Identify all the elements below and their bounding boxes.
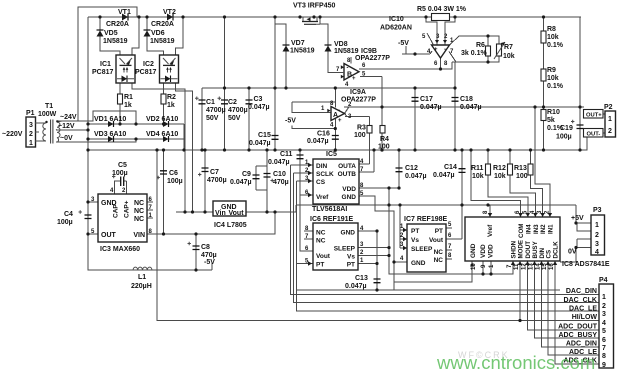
wire R2 chain — [163, 83, 165, 124]
svg-text:IC6 REF191E: IC6 REF191E — [310, 216, 354, 223]
wire C7 branch — [204, 150, 206, 212]
wire HI/LOW run — [157, 150, 599, 321]
wire C9 C10 pair — [256, 150, 267, 212]
svg-text:0.047µ: 0.047µ — [307, 138, 329, 145]
svg-text:VD5: VD5 — [104, 30, 118, 37]
svg-text:4: 4 — [602, 320, 606, 327]
svg-text:3: 3 — [602, 311, 606, 318]
wire IC10 pin3 — [426, 17, 437, 45]
svg-text:DAC_DIN: DAC_DIN — [566, 288, 597, 295]
capacitor C12 — [396, 168, 403, 172]
wire C14 branch — [461, 150, 463, 239]
svg-text:AD620AN: AD620AN — [380, 25, 412, 32]
svg-text:50V: 50V — [228, 115, 241, 122]
svg-text:C5: C5 — [118, 162, 127, 169]
svg-text:-: - — [338, 108, 340, 114]
svg-text:-5V: -5V — [398, 40, 409, 47]
svg-text:NC: NC — [134, 216, 144, 223]
svg-text:VT2: VT2 — [163, 9, 176, 16]
svg-text:OUT-: OUT- — [587, 131, 601, 137]
svg-text:VDD: VDD — [342, 186, 356, 193]
capacitor C7 — [198, 168, 209, 176]
capacitor C3 — [246, 100, 253, 104]
svg-text:ADC_DOUT: ADC_DOUT — [558, 324, 598, 331]
wire top-left 24V loop — [56, 7, 137, 124]
svg-text:C4: C4 — [64, 211, 73, 218]
svg-text:100W: 100W — [38, 111, 57, 118]
wire IC9A pin2 — [345, 108, 349, 114]
svg-text:VDD: VDD — [488, 244, 495, 258]
opamp IC9A — [331, 107, 345, 121]
svg-text:5: 5 — [602, 328, 606, 335]
svg-text:Vs: Vs — [347, 254, 355, 261]
svg-text:C19: C19 — [560, 125, 573, 132]
wire cap positive rail — [202, 87, 456, 89]
diode VD4 — [163, 136, 169, 142]
svg-text:~220V: ~220V — [2, 131, 23, 138]
svg-text:ADC_DIN: ADC_DIN — [566, 341, 597, 348]
wire 7805 input — [176, 211, 213, 213]
svg-text:DOUT: DOUT — [525, 241, 532, 259]
svg-text:1: 1 — [608, 116, 612, 123]
svg-text:C3: C3 — [254, 96, 263, 103]
svg-text:DAC_CLK: DAC_CLK — [564, 297, 597, 304]
wire 12V to bus — [56, 129, 88, 131]
svg-text:1N5819: 1N5819 — [150, 38, 175, 45]
svg-text:R13: R13 — [514, 165, 527, 172]
svg-text:0.047µ: 0.047µ — [230, 179, 252, 186]
svg-text:100: 100 — [354, 132, 366, 139]
svg-text:1N5819: 1N5819 — [290, 48, 315, 55]
capacitor C14 — [459, 169, 466, 173]
svg-text:R4: R4 — [380, 136, 389, 143]
wire OUTB — [357, 150, 374, 172]
wire C6 branch — [163, 150, 165, 234]
wire IC8 VDD pins — [483, 261, 513, 274]
watermark — [436, 350, 595, 373]
optocoupler IC2 — [160, 55, 179, 83]
wire 7805 output — [246, 205, 296, 212]
svg-text:0.047µ: 0.047µ — [460, 104, 482, 111]
wire 0V — [56, 139, 136, 142]
wire IC7 left pins — [394, 205, 408, 262]
svg-text:Vref: Vref — [487, 224, 494, 237]
resistor R6 — [486, 46, 491, 56]
opamp IC9B — [328, 64, 359, 81]
svg-text:10k: 10k — [503, 53, 515, 60]
svg-text:-: - — [347, 66, 349, 72]
svg-text:R2: R2 — [167, 94, 176, 101]
wire IC8 GND pin10 — [394, 261, 472, 282]
svg-text:1N5819: 1N5819 — [103, 38, 128, 45]
svg-text:NC: NC — [316, 230, 326, 237]
capacitor C15 — [272, 136, 279, 140]
svg-text:C6: C6 — [169, 170, 178, 177]
node -5V stub left — [211, 263, 213, 270]
svg-text:R11: R11 — [471, 165, 484, 172]
svg-text:PT: PT — [435, 228, 443, 235]
svg-text:C9: C9 — [242, 171, 251, 178]
svg-text:R5 0.04 3W 1%: R5 0.04 3W 1% — [417, 6, 467, 13]
connector P1 — [26, 117, 36, 147]
svg-text:470µ: 470µ — [273, 179, 289, 186]
resistor R4 — [380, 126, 385, 134]
svg-text:+: + — [434, 47, 438, 53]
svg-text:IC1: IC1 — [100, 61, 111, 68]
svg-text:C10: C10 — [273, 171, 286, 178]
wire R12 to IN3 — [510, 150, 535, 217]
svg-text:PT: PT — [347, 262, 355, 269]
diode VD8 — [325, 45, 332, 52]
wire IC10 pin2 — [445, 17, 455, 45]
wire VD7 branch — [275, 17, 286, 88]
wire IC6 left stubs — [296, 231, 313, 264]
svg-text:3: 3 — [595, 241, 599, 248]
svg-text:PC817: PC817 — [92, 69, 114, 76]
wire ground bus — [88, 149, 580, 151]
svg-text:CR20A: CR20A — [151, 21, 174, 28]
wire R6 R7 box — [452, 36, 499, 62]
svg-text:2: 2 — [602, 303, 606, 310]
svg-text:GND: GND — [470, 243, 477, 258]
svg-text:DCLK: DCLK — [553, 241, 560, 259]
svg-text:C16: C16 — [317, 131, 330, 138]
svg-text:2: 2 — [595, 232, 599, 239]
svg-text:1N5819: 1N5819 — [334, 48, 359, 55]
svg-text:Vout: Vout — [229, 210, 245, 217]
wire R8 R9 R10 chain — [543, 17, 545, 150]
svg-text:C7: C7 — [210, 169, 219, 176]
wire left vertical bus — [88, 17, 212, 270]
resistor R1 — [118, 94, 123, 104]
svg-text:ADC_BUSY: ADC_BUSY — [558, 332, 597, 339]
wire IC5 GND route — [357, 196, 394, 290]
wire IC8 Vref stub — [489, 205, 491, 217]
wire IN1 sense — [535, 107, 550, 217]
wire MODE to HILOW — [519, 261, 521, 321]
diode VD1 — [108, 121, 114, 127]
wire VD6 to IC2 — [147, 17, 164, 55]
resistor R11 — [486, 164, 491, 175]
capacitor C1 — [195, 97, 206, 104]
diode VD2 — [163, 121, 169, 127]
svg-text:C11: C11 — [280, 151, 293, 158]
wire IC5 CS and DAC_LE run — [297, 181, 600, 311]
svg-text:OUT+: OUT+ — [586, 112, 602, 118]
svg-text:PT: PT — [411, 228, 419, 235]
capacitor C11 — [297, 155, 304, 159]
svg-text:PT: PT — [316, 262, 324, 269]
diode VT1 — [122, 14, 128, 21]
svg-text:CAP+: CAP+ — [124, 200, 131, 218]
svg-text:10k: 10k — [494, 173, 506, 180]
resistor R3 — [367, 126, 372, 134]
svg-text:+: + — [352, 76, 356, 82]
svg-text:~12V: ~12V — [58, 123, 75, 130]
svg-text:DIN: DIN — [316, 163, 328, 170]
svg-text:SHDN: SHDN — [511, 240, 518, 258]
svg-text:100µ: 100µ — [167, 178, 183, 185]
wire C2 branch — [224, 17, 226, 150]
svg-text:R12: R12 — [493, 165, 506, 172]
svg-text:+5V: +5V — [571, 215, 584, 222]
wire output branch right — [579, 17, 581, 150]
wire C13 branch — [376, 231, 378, 290]
connector P3 — [591, 215, 605, 255]
resistor R2 — [161, 94, 166, 104]
svg-text:0.047µ: 0.047µ — [345, 283, 367, 290]
svg-text:1: 1 — [602, 294, 606, 301]
ic IC8 — [465, 217, 560, 261]
svg-text:Vout: Vout — [429, 237, 444, 244]
svg-text:HI/LOW: HI/LOW — [572, 314, 598, 321]
wire IC2 emitter down — [176, 83, 193, 212]
svg-text:L1: L1 — [138, 274, 146, 281]
svg-text:GND: GND — [342, 194, 357, 201]
svg-text:SCLK: SCLK — [316, 171, 334, 178]
wire IC2 top-right to rail — [176, 17, 184, 55]
diode VD6 — [144, 30, 151, 37]
wire IC9A -5V C16 — [292, 119, 335, 151]
optocoupler IC1 — [116, 55, 135, 83]
svg-text:P2: P2 — [604, 104, 613, 111]
svg-text:IN1: IN1 — [548, 224, 555, 234]
svg-text:100: 100 — [378, 144, 390, 151]
svg-text:C12: C12 — [405, 165, 418, 172]
svg-text:OUT: OUT — [101, 232, 117, 239]
wire VDD node — [357, 188, 483, 274]
net label OUT+ — [584, 110, 604, 119]
mosfet VT3 — [302, 17, 320, 24]
svg-text:0.1%: 0.1% — [547, 42, 564, 49]
capacitor C5 — [112, 175, 124, 186]
svg-text:C14: C14 — [444, 164, 457, 171]
wire DOUT run — [528, 261, 600, 330]
svg-text:1: 1 — [29, 140, 33, 147]
wire OUTA to R3 — [357, 133, 370, 165]
svg-text:COM: COM — [518, 224, 525, 238]
svg-text:VD7: VD7 — [291, 40, 305, 47]
net label OUT- — [584, 129, 604, 138]
svg-text:OUTA: OUTA — [338, 163, 356, 170]
resistor R8 — [541, 31, 546, 43]
wire IC9A pin8 loop — [292, 88, 335, 113]
capacitor C13 — [374, 279, 381, 283]
svg-text:C8: C8 — [201, 244, 210, 251]
svg-text:0.1%: 0.1% — [547, 83, 564, 90]
svg-text:IC2: IC2 — [143, 61, 154, 68]
wire C8 branch — [195, 234, 197, 270]
wire DCLK run — [555, 261, 599, 364]
resistor R13 — [528, 164, 533, 175]
wire +5V rail — [296, 204, 576, 206]
svg-text:NC: NC — [434, 249, 444, 256]
ic IC6 — [313, 223, 358, 270]
wire OUT+ link — [580, 107, 605, 114]
svg-text:50V: 50V — [206, 115, 219, 122]
svg-text:CS: CS — [546, 250, 553, 259]
svg-text:R10: R10 — [547, 109, 560, 116]
capacitor C8 — [188, 242, 200, 250]
wire C1 branch — [201, 88, 203, 150]
wire main top rail — [88, 16, 581, 18]
svg-text:T1: T1 — [45, 103, 53, 110]
svg-text:VD2 6A10: VD2 6A10 — [146, 116, 178, 123]
resistor R5 — [432, 14, 450, 21]
svg-text:OUTB: OUTB — [338, 171, 357, 178]
svg-text:3k 0.1%: 3k 0.1% — [461, 50, 487, 57]
wire C18 branch — [454, 62, 456, 150]
svg-text:VIN: VIN — [133, 232, 145, 239]
wire IC10 pin5 diag — [427, 33, 434, 45]
svg-text:VD8: VD8 — [334, 41, 348, 48]
svg-text:OPA2277P: OPA2277P — [341, 97, 376, 104]
wire R1 chain — [119, 83, 121, 124]
diode VD7 — [283, 45, 290, 52]
ic IC3 — [98, 194, 147, 242]
inductor L1 — [133, 267, 152, 270]
svg-text:IN4: IN4 — [526, 224, 533, 234]
svg-text:10k: 10k — [547, 75, 559, 82]
capacitor C19 — [571, 120, 584, 129]
svg-text:Vs: Vs — [411, 237, 419, 244]
svg-text:MODE: MODE — [518, 240, 525, 259]
wire IC9B pin5 to R4 — [360, 77, 382, 151]
wire VD5 to IC1 — [100, 17, 120, 55]
svg-text:1k: 1k — [124, 102, 132, 109]
wire C11 Vref branch — [300, 150, 313, 251]
svg-text:7: 7 — [602, 345, 606, 352]
wire IC5 DIN and DAC_DIN run — [291, 165, 600, 295]
wire IC10 pin4 diag — [430, 51, 432, 54]
svg-text:0.047µ: 0.047µ — [433, 172, 455, 179]
svg-text:SLEEP: SLEEP — [411, 246, 433, 253]
svg-text:TLV5618AI: TLV5618AI — [312, 206, 347, 213]
wire C12 branch — [398, 150, 400, 188]
svg-text:~24V: ~24V — [60, 114, 77, 121]
wire -5V opamp rail — [402, 46, 430, 54]
svg-text:2: 2 — [29, 131, 33, 138]
svg-text:R8: R8 — [547, 26, 556, 33]
svg-text:IC10: IC10 — [389, 16, 404, 23]
svg-text:IN3: IN3 — [533, 224, 540, 234]
wire P3 5V — [576, 205, 591, 231]
capacitor C4 — [79, 210, 92, 218]
svg-text:SLEEP: SLEEP — [334, 246, 356, 253]
wire IC9A pin3 — [345, 114, 370, 126]
wire IC10 out down — [440, 58, 442, 69]
svg-text:WF©CRK: WF©CRK — [458, 350, 510, 360]
svg-text:VD1 6A10: VD1 6A10 — [94, 116, 126, 123]
wire IC5 SCLK and DAC_CLK run — [294, 173, 600, 303]
svg-text:C18: C18 — [460, 96, 473, 103]
svg-text:8: 8 — [602, 353, 606, 360]
svg-text:P1: P1 — [26, 110, 35, 117]
svg-text:0.047µ: 0.047µ — [420, 104, 442, 111]
capacitor C16 — [332, 136, 339, 140]
svg-text:10k: 10k — [472, 173, 484, 180]
capacitor C17 — [412, 98, 419, 102]
svg-text:C13: C13 — [355, 275, 368, 282]
svg-text:0.047µ: 0.047µ — [268, 159, 290, 166]
wire IC9B pin8 — [350, 57, 352, 64]
wire sense line 107 — [344, 106, 580, 108]
svg-text:IC4 L7805: IC4 L7805 — [214, 222, 247, 229]
svg-text:VT3 IRFP450: VT3 IRFP450 — [293, 3, 336, 10]
svg-text:1: 1 — [595, 222, 599, 229]
wire IC3 left pins — [88, 202, 98, 234]
diode VT2 — [167, 14, 173, 21]
wire IC3 VIN row — [147, 212, 275, 234]
svg-text:R3: R3 — [357, 125, 366, 132]
svg-text:5k: 5k — [547, 117, 555, 124]
svg-text:0V: 0V — [568, 249, 577, 256]
svg-text:100µ: 100µ — [112, 170, 128, 177]
svg-text:10k: 10k — [547, 34, 559, 41]
svg-text:IC3 MAX660: IC3 MAX660 — [100, 246, 140, 253]
svg-text:Vin: Vin — [215, 210, 226, 217]
resistor R9 — [541, 69, 546, 81]
svg-text:NC: NC — [316, 238, 326, 245]
svg-text:CAP-: CAP- — [113, 202, 120, 218]
svg-text:~0V: ~0V — [60, 135, 73, 142]
opamp IC10 — [432, 45, 450, 58]
svg-text:IC8 ADS7841E: IC8 ADS7841E — [562, 261, 610, 268]
svg-text:CR20A: CR20A — [106, 21, 129, 28]
capacitor C6 — [157, 171, 168, 179]
svg-text:GND: GND — [411, 260, 426, 267]
diode VD5 — [97, 30, 104, 37]
capacitor C9 — [253, 175, 260, 179]
svg-text:3: 3 — [29, 122, 33, 129]
svg-text:IC9B: IC9B — [361, 48, 377, 55]
svg-text:C1: C1 — [206, 99, 215, 106]
svg-text:C15: C15 — [258, 132, 271, 139]
svg-text:1k: 1k — [167, 102, 175, 109]
svg-text:R6: R6 — [476, 42, 485, 49]
ic IC7 — [407, 224, 446, 272]
svg-text:R1: R1 — [124, 94, 133, 101]
svg-text:DAC_LE: DAC_LE — [569, 306, 597, 313]
resistor R10 — [541, 110, 546, 121]
svg-text:P3: P3 — [593, 207, 602, 214]
svg-text:0.047µ: 0.047µ — [405, 173, 427, 180]
svg-text:IC9A: IC9A — [350, 89, 366, 96]
transformer T1 — [35, 120, 62, 144]
connector P2 — [605, 111, 616, 137]
capacitor C18 — [452, 98, 459, 102]
svg-text:2: 2 — [608, 128, 612, 135]
svg-text:VD4 6A10: VD4 6A10 — [146, 131, 178, 138]
svg-text:GND: GND — [341, 230, 356, 237]
svg-text:0.047µ: 0.047µ — [248, 104, 270, 111]
svg-text:-: - — [444, 47, 446, 53]
svg-text:100µ: 100µ — [556, 134, 572, 141]
wire IC9B out — [359, 62, 452, 69]
resistor R7 — [494, 42, 505, 59]
svg-text:VDD: VDD — [480, 244, 487, 258]
wire IC1 top-right to rail — [132, 17, 139, 55]
svg-text:PC817: PC817 — [135, 69, 157, 76]
wire R11 to IN4 — [488, 150, 528, 217]
wire IC10 pin7 diag — [449, 52, 456, 63]
wire C5 loop — [115, 181, 127, 194]
svg-text:R9: R9 — [547, 67, 556, 74]
svg-text:CS: CS — [316, 179, 326, 186]
svg-text:Vout: Vout — [316, 253, 331, 260]
svg-text:OPA2277P: OPA2277P — [355, 55, 390, 62]
wire OUT- link — [580, 133, 605, 150]
